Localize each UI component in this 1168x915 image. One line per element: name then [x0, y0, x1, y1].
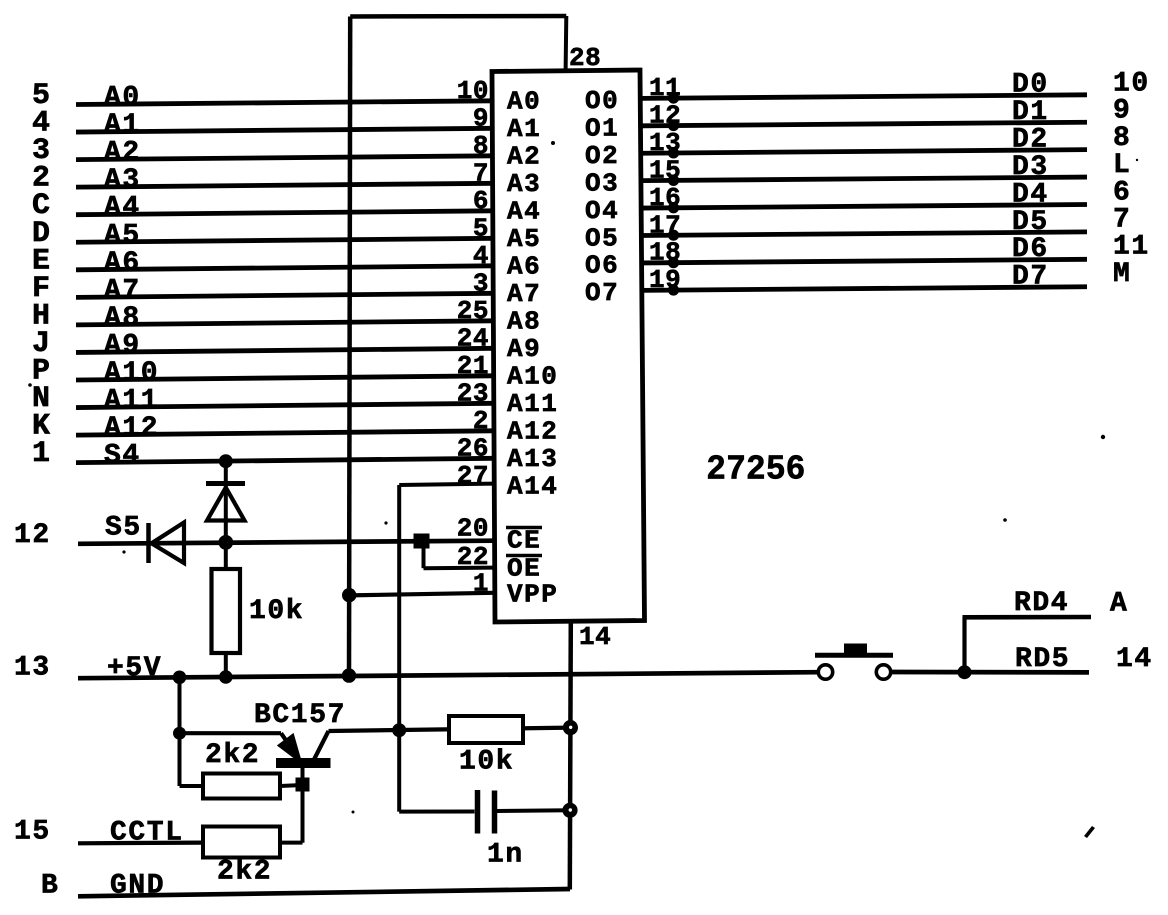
- svg-text:14: 14: [579, 622, 611, 652]
- wire D4 (data bus O4 to edge connector): [642, 204, 1087, 208]
- wire A12 (address bus row 12 from edge connector to EPROM): [76, 431, 493, 435]
- svg-text:26: 26: [457, 433, 489, 463]
- svg-text:D6: D6: [1012, 234, 1049, 265]
- wire VPP (pin 1 to +5V vertical): [349, 593, 493, 596]
- svg-text:13: 13: [14, 653, 51, 684]
- junction dot on D2 at pin 13: [668, 147, 679, 158]
- transistor Q1 collector diagonal: [314, 731, 329, 760]
- junction dot on D7 at pin 19: [668, 284, 679, 295]
- junction dot on D5 at pin 17: [668, 230, 679, 241]
- svg-text:A6: A6: [507, 251, 541, 281]
- svg-text:27: 27: [457, 461, 489, 491]
- wire D6 (data bus O6 to edge connector): [642, 259, 1087, 263]
- svg-text:A3: A3: [104, 165, 141, 196]
- svg-text:1n: 1n: [487, 840, 524, 871]
- junction dot on D0 at pin 11: [668, 93, 679, 104]
- wire RD4 branch vertical: [962, 617, 966, 672]
- svg-text:A10: A10: [104, 358, 159, 389]
- svg-text:D0: D0: [1012, 70, 1049, 101]
- svg-text:1: 1: [32, 437, 50, 471]
- svg-text:A7: A7: [507, 279, 541, 309]
- wire A9 (address bus row 9 from edge connector to EPROM): [76, 348, 493, 352]
- svg-text:D3: D3: [1012, 152, 1049, 183]
- svg-text:A2: A2: [104, 138, 141, 169]
- wire cap right lead: [497, 808, 570, 813]
- svg-text:10: 10: [457, 76, 489, 106]
- wire D2 (data bus O2 to edge connector): [642, 150, 1087, 154]
- wire D1 (data bus O1 to edge connector): [642, 122, 1087, 126]
- svg-text:O1: O1: [585, 113, 619, 143]
- svg-text:A4: A4: [507, 196, 541, 226]
- svg-text:A5: A5: [507, 224, 541, 254]
- transistor Q1 emitter arrow (PNP): [279, 735, 302, 763]
- wire S4 (address bus row 13 from edge connector to EPROM): [76, 458, 493, 462]
- svg-text:D2: D2: [1012, 125, 1049, 156]
- svg-text:A13: A13: [507, 444, 558, 474]
- wire OE branch horizontal to pin 22: [424, 566, 494, 571]
- svg-text:S5: S5: [105, 513, 142, 544]
- junction dot collector / A14 vertical: [392, 723, 406, 737]
- wire A0 (address bus row 0 from edge connector to EPROM): [76, 101, 493, 105]
- svg-text:5: 5: [473, 213, 489, 243]
- svg-text:RD5: RD5: [1015, 644, 1070, 675]
- wire OE branch vertical: [422, 541, 426, 568]
- resistor R1 10k (CE pull-up) body: [212, 569, 241, 653]
- svg-text:O0: O0: [585, 86, 619, 116]
- svg-text:A12: A12: [104, 413, 159, 444]
- resistor R2 2k2 body: [203, 774, 280, 799]
- junction dot RD4/RD5 split: [958, 665, 972, 679]
- junction dot base / 2k2 pull-up (square blob): [296, 778, 310, 792]
- wire D0 (data bus O0 to edge connector): [642, 95, 1087, 99]
- svg-text:A8: A8: [507, 306, 541, 336]
- wire A2 (address bus row 2 from edge connector to EPROM): [76, 156, 493, 160]
- wire Q1 emitter horizontal: [180, 731, 282, 735]
- junction dot emitter/base-resistor branch: [173, 727, 186, 740]
- svg-text:RD4: RD4: [1014, 588, 1069, 619]
- wire Q1 base vertical: [301, 766, 305, 843]
- diode D2 triangle (anode right, pointing left): [152, 523, 185, 564]
- junction dot +5V / transistor branch: [173, 671, 187, 685]
- wire A8 (address bus row 8 from edge connector to EPROM): [76, 321, 493, 325]
- wire A14 (pin 27 to RC node): [399, 484, 493, 485]
- wire pin-14 GND vertical: [570, 621, 571, 890]
- CE overline: [506, 526, 542, 530]
- svg-text:D5: D5: [1012, 207, 1049, 238]
- noise specks (scan artifacts): [28, 141, 1138, 838]
- junction dot on D4 at pin 16: [668, 202, 679, 213]
- junction dot GND vertical / C1 (ring): [562, 803, 577, 818]
- pushbutton S1 left contact: [818, 665, 832, 679]
- wire Q1 emitter branch vertical: [178, 676, 182, 786]
- svg-text:21: 21: [457, 351, 489, 381]
- svg-text:M: M: [1113, 259, 1131, 290]
- resistor R2 right lead: [280, 785, 303, 786]
- capacitor C1 right plate: [492, 791, 498, 834]
- wire D3 (data bus O3 to edge connector): [642, 177, 1087, 181]
- wire row 13 +5V rail (left part): [78, 672, 818, 678]
- pushbutton S1 bar: [815, 653, 893, 658]
- wire D5 (data bus O5 to edge connector): [642, 232, 1087, 236]
- svg-text:A0: A0: [104, 83, 141, 114]
- svg-text:A14: A14: [507, 471, 558, 501]
- wire A1 (address bus row 1 from edge connector to EPROM): [76, 128, 493, 132]
- svg-text:A11: A11: [104, 386, 159, 417]
- svg-text:O5: O5: [585, 223, 619, 253]
- svg-text:O3: O3: [585, 168, 619, 198]
- junction dot VPP / VCC vertical: [342, 588, 356, 602]
- svg-text:2k2: 2k2: [205, 740, 260, 771]
- capacitor C1 left plate: [475, 790, 481, 834]
- svg-text:+5V: +5V: [107, 653, 162, 684]
- EPROM IC U1 body (27256): [492, 70, 645, 622]
- junction dot GND vertical / R4 (ring): [563, 720, 578, 735]
- svg-text:O7: O7: [585, 278, 619, 308]
- svg-text:14: 14: [1116, 644, 1153, 675]
- svg-text:A10: A10: [507, 361, 558, 391]
- resistor R3 2k2 (base series) body: [203, 827, 280, 858]
- zener D1 cathode bar: [206, 481, 245, 486]
- svg-text:A0: A0: [507, 86, 541, 116]
- svg-text:15: 15: [14, 817, 51, 848]
- wire row 12 (CE/OE select): [78, 541, 493, 544]
- svg-text:A: A: [1110, 589, 1128, 620]
- svg-text:A3: A3: [507, 169, 541, 199]
- svg-text:A12: A12: [507, 416, 558, 446]
- svg-text:A7: A7: [104, 275, 141, 306]
- svg-text:12: 12: [14, 520, 51, 551]
- svg-text:BC157: BC157: [254, 700, 346, 731]
- junction dot row12 / zener / 10k (ring): [218, 535, 233, 550]
- wire row B GND: [78, 889, 570, 896]
- svg-text:CCTL: CCTL: [110, 818, 184, 849]
- svg-text:25: 25: [457, 296, 489, 326]
- wire VCC long vertical (x=349): [349, 17, 350, 676]
- zener D1 triangle (pointing up): [207, 488, 245, 521]
- wire A3 (address bus row 3 from edge connector to EPROM): [76, 183, 493, 187]
- transistor Q1 base bar: [276, 758, 331, 768]
- junction dot on D3 at pin 15: [668, 175, 679, 186]
- wire A5 (address bus row 5 from edge connector to EPROM): [76, 238, 493, 242]
- svg-text:A1: A1: [507, 114, 541, 144]
- wire A11 (address bus row 11 from edge connector to EPROM): [76, 403, 493, 407]
- pushbutton S1 right contact: [876, 665, 890, 679]
- svg-text:A8: A8: [104, 303, 141, 334]
- svg-text:27256: 27256: [707, 449, 806, 486]
- diode D2 cathode bar: [146, 523, 151, 563]
- svg-text:A1: A1: [104, 110, 141, 141]
- wire A6 (address bus row 6 from edge connector to EPROM): [76, 266, 493, 270]
- junction dot +5V / VCC vertical: [342, 668, 356, 682]
- wire A14 vertical (RC node): [397, 485, 401, 812]
- svg-text:B: B: [41, 871, 59, 902]
- wire collector row (to 10k): [329, 728, 571, 731]
- svg-text:24: 24: [457, 323, 489, 353]
- svg-text:A6: A6: [104, 248, 141, 279]
- svg-text:O6: O6: [585, 251, 619, 281]
- svg-text:A11: A11: [507, 389, 558, 419]
- svg-text:2: 2: [473, 406, 489, 436]
- resistor R4 10k (collector load) body: [449, 716, 523, 743]
- junction dot on S4 row (zener top): [219, 454, 233, 468]
- svg-text:D1: D1: [1012, 97, 1049, 128]
- pushbutton S1 knob: [844, 644, 867, 654]
- wire A10 (address bus row 10 from edge connector to EPROM): [76, 376, 493, 380]
- junction dot on D6 at pin 18: [668, 257, 679, 268]
- wire row 13 right of pushbutton (RD5): [891, 670, 1089, 675]
- resistor R3 right lead: [280, 841, 303, 845]
- wire D7 (data bus O7 to edge connector): [642, 287, 1087, 291]
- wire VCC top horizontal: [350, 14, 566, 19]
- svg-text:O4: O4: [585, 196, 619, 226]
- svg-text:7: 7: [473, 158, 489, 188]
- svg-text:10k: 10k: [249, 596, 304, 627]
- svg-text:4: 4: [473, 241, 489, 271]
- wire RC bottom horizontal to cap: [399, 810, 474, 814]
- svg-text:A2: A2: [507, 141, 541, 171]
- wire row 15 CCTL: [78, 840, 203, 845]
- svg-text:2k2: 2k2: [217, 857, 272, 888]
- svg-text:10k: 10k: [459, 747, 514, 778]
- zener diode D1 vertical link: [224, 461, 228, 568]
- wire A7 (address bus row 7 from edge connector to EPROM): [76, 293, 493, 297]
- svg-text:VPP: VPP: [507, 580, 558, 610]
- junction dot +5V / R1: [219, 670, 233, 684]
- wire pin-28 VCC stub (IC top to loop corner): [564, 16, 569, 71]
- svg-text:CE: CE: [507, 526, 541, 556]
- svg-text:D7: D7: [1012, 262, 1049, 293]
- svg-text:O2: O2: [585, 141, 619, 171]
- wire RD4 branch horizontal: [963, 615, 1092, 620]
- junction dot row12 / CE-OE split (square blob): [414, 534, 430, 549]
- svg-text:A9: A9: [104, 330, 141, 361]
- junction dot on D1 at pin 12: [668, 120, 679, 131]
- resistor R2 2k2 (base pull-up) left lead: [180, 784, 204, 788]
- svg-text:6: 6: [473, 186, 489, 216]
- OE overline: [506, 554, 542, 558]
- wire A4 (address bus row 4 from edge connector to EPROM): [76, 211, 493, 215]
- svg-text:9: 9: [473, 103, 489, 133]
- resistor R1 bottom lead: [224, 653, 228, 677]
- svg-text:GND: GND: [110, 871, 165, 902]
- svg-text:A9: A9: [507, 334, 541, 364]
- svg-text:23: 23: [457, 378, 489, 408]
- svg-text:3: 3: [473, 268, 489, 298]
- svg-text:A5: A5: [104, 220, 141, 251]
- svg-text:A4: A4: [104, 193, 141, 224]
- transistor Q1 emitter diagonal: [281, 733, 299, 759]
- svg-text:8: 8: [473, 131, 489, 161]
- svg-text:D4: D4: [1012, 179, 1049, 210]
- svg-text:S4: S4: [104, 441, 141, 472]
